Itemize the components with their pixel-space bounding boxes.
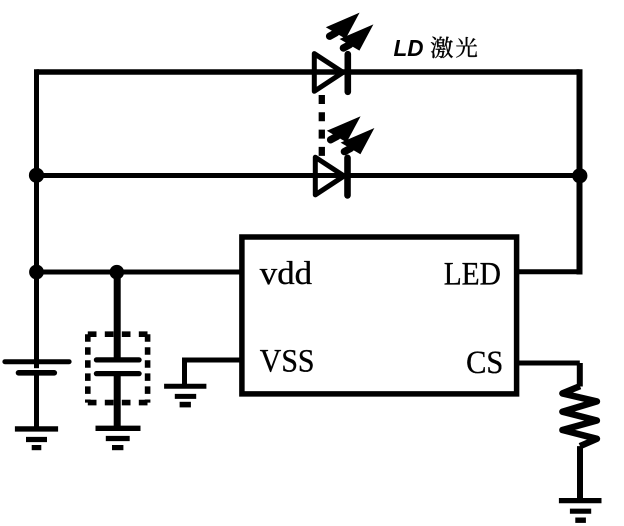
wire resistor bottom lead — [577, 446, 583, 500]
ground VSS bar1 — [164, 384, 206, 389]
laser diode D2 triangle — [315, 157, 344, 195]
ground battery bar2 — [26, 437, 47, 442]
wire CS pin — [517, 361, 580, 366]
wire CS drop to resistor — [577, 363, 583, 387]
laser diode D1 emission arrow 1 head — [326, 13, 360, 39]
laser diode D1 cathode bar — [344, 54, 351, 92]
laser diode D1 emission arrow 2 tail — [343, 45, 349, 48]
wire battery bottom lead — [34, 373, 39, 429]
laser diode D1 emission arrow 2 head — [340, 24, 374, 50]
svg-text:vdd: vdd — [260, 256, 313, 292]
ground capacitor bar1 — [96, 426, 141, 431]
battery BT1 positive plate — [5, 359, 69, 364]
resistor R1 zigzag — [562, 386, 597, 446]
wire top rail — [37, 69, 580, 75]
capacitor C1 dashed enclosure — [88, 334, 148, 402]
wire right vertical (top rail to LED pin wire) — [577, 69, 583, 274]
node junction dot capacitor-vdd — [110, 265, 125, 280]
battery BT1 negative plate — [19, 370, 55, 376]
wire capacitor top lead — [114, 272, 121, 360]
wire LED pin — [517, 269, 580, 274]
capacitor C1 top plate — [96, 357, 139, 362]
node junction dot left-vdd — [29, 265, 44, 280]
laser diode D1 triangle — [314, 54, 343, 92]
laser diode D2 cathode bar — [344, 158, 351, 196]
ground resistor bar1 — [559, 498, 602, 503]
wire VSS ground drop — [182, 358, 187, 385]
ground capacitor bar3 — [112, 445, 123, 450]
wire VSS pin — [185, 358, 243, 363]
ground VSS bar2 — [175, 394, 196, 399]
svg-text:VSS: VSS — [260, 344, 315, 380]
ground capacitor bar2 — [106, 436, 130, 441]
capacitor C1 bottom plate — [96, 371, 139, 376]
ground resistor bar3 — [575, 518, 586, 523]
wire battery plate stub — [34, 362, 39, 369]
laser diode D2 emission arrow 2 tail — [344, 148, 350, 151]
ground battery bar1 — [15, 426, 58, 431]
ground resistor bar2 — [570, 509, 591, 514]
label CJK ji (激) — [431, 37, 453, 59]
ground battery bar3 — [32, 445, 42, 450]
node junction dot right-middle — [572, 168, 587, 183]
svg-text:CS: CS — [466, 345, 503, 381]
dashed optical coupling line — [319, 95, 325, 157]
wire capacitor bottom lead — [114, 374, 121, 429]
IC U1 body — [242, 237, 517, 394]
wire middle rail — [37, 173, 580, 178]
wire vdd rail — [37, 270, 243, 275]
laser diode D2 emission arrow 1 head — [327, 116, 361, 142]
node junction dot left-middle — [29, 168, 44, 183]
svg-text:LED: LED — [444, 257, 501, 293]
laser diode D1 emission arrow 1 tail — [330, 33, 336, 36]
laser diode D2 emission arrow 1 tail — [331, 136, 337, 139]
ground VSS bar3 — [180, 402, 191, 408]
wire left vertical (top rail to battery) — [34, 69, 39, 361]
label CJK guang (光) — [456, 37, 477, 58]
laser diode D2 emission arrow 2 head — [341, 128, 375, 154]
svg-text:LD: LD — [394, 35, 424, 61]
